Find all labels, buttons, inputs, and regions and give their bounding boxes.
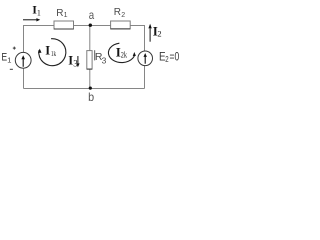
svg-text:R: R: [56, 8, 63, 19]
svg-text:2: 2: [157, 29, 161, 39]
svg-text:3: 3: [102, 55, 107, 65]
svg-text:1: 1: [37, 8, 41, 17]
svg-text:=0: =0: [170, 51, 180, 63]
svg-text:1k: 1k: [51, 49, 56, 58]
svg-text:1: 1: [64, 12, 68, 19]
svg-text:2: 2: [121, 12, 125, 19]
svg-text:R: R: [114, 7, 121, 18]
svg-text:I: I: [45, 43, 50, 57]
svg-text:b: b: [88, 90, 94, 104]
svg-text:3: 3: [73, 58, 78, 68]
svg-text:1: 1: [7, 55, 11, 64]
svg-text:a: a: [89, 8, 95, 22]
svg-text:2k: 2k: [121, 51, 127, 60]
